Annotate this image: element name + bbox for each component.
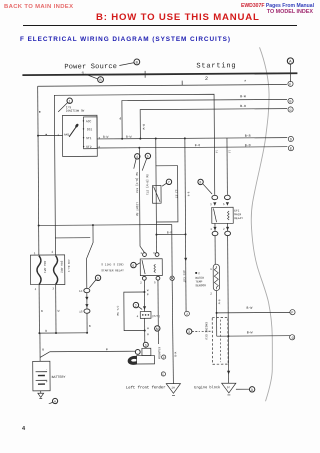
pointer line [58, 103, 68, 112]
connector oval 15 [84, 309, 90, 313]
left main vertical wire lower [38, 285, 40, 333]
left main vertical wire upper [38, 86, 39, 255]
terminal circle B [162, 355, 166, 359]
callout pointer to node 30 [119, 63, 133, 66]
svg-text:B-W: B-W [126, 136, 132, 139]
relay bottom stubs [215, 223, 228, 231]
battery ground stub [40, 391, 42, 393]
fuse element diagonal [153, 186, 160, 201]
wire down from ST1 to ST fuse box [155, 139, 157, 166]
svg-text:1A: 1A [171, 386, 175, 389]
svg-text:B: B [289, 99, 291, 103]
ignition switch box [62, 115, 97, 156]
svg-text:BATTERY: BATTERY [52, 375, 66, 379]
wire segment [86, 293, 88, 309]
junction dots [38, 224, 40, 226]
svg-text:W-B: W-B [174, 352, 177, 357]
svg-text:3: 3 [52, 288, 54, 291]
svg-text:B: B [147, 333, 149, 336]
relay coil [154, 264, 156, 272]
svg-text:ST1: ST1 [86, 136, 92, 140]
svg-text:4: 4 [119, 118, 121, 122]
svg-text:b: b [289, 82, 291, 86]
pointer [136, 263, 140, 265]
svg-text:1: 1 [34, 252, 36, 255]
callout circle F in box [166, 179, 171, 184]
section subtitle [20, 36, 231, 43]
callout circle for ignition switch [67, 98, 72, 103]
splice circle with X [170, 276, 174, 280]
svg-text:1: 1 [140, 252, 142, 255]
svg-text:*: * [244, 79, 246, 84]
svg-text:B-O: B-O [240, 104, 246, 108]
svg-text:SENSOR: SENSOR [195, 284, 206, 287]
svg-text:B: B [147, 293, 149, 296]
svg-text:MAIN: MAIN [234, 213, 241, 216]
connector circle F [290, 310, 295, 315]
tap to EFI relay from ST1 wire [226, 138, 228, 195]
pointer lines to rotated labels [134, 158, 147, 170]
jumper fuse to branch [55, 237, 90, 239]
battery plates [36, 371, 47, 373]
wire ST2 to connector E [97, 147, 287, 148]
EFI relay top connector oval 3 [212, 195, 218, 199]
EFI relay bottom connector oval 2 [225, 231, 231, 235]
svg-text:SW [B-W] ST1: SW [B-W] ST1 [145, 174, 149, 195]
arrowhead on vertical [184, 258, 187, 261]
long vertical wire to engine ECU [185, 138, 186, 311]
EFI relay bottom connector oval 1 [212, 231, 218, 235]
svg-text:30A AM2: 30A AM2 [60, 261, 63, 273]
wire battery to AM1 [38, 134, 62, 136]
svg-text:B-O: B-O [245, 143, 251, 147]
left front fender ground triangle [166, 384, 180, 394]
shielded dashed box [212, 317, 228, 364]
junction dot loop bottom [144, 330, 146, 332]
bottom bus wire [39, 332, 87, 334]
svg-text:15: 15 [79, 311, 83, 314]
fender ground vertical wire lower [172, 281, 173, 384]
water temp sensor body [213, 264, 219, 290]
battery ground arrow [38, 393, 44, 397]
svg-text:B: B [99, 78, 102, 82]
svg-text:2: 2 [140, 282, 142, 285]
svg-text:1J: 1J [228, 150, 231, 154]
svg-text:1: 1 [81, 71, 84, 77]
svg-text:W: W [58, 310, 60, 313]
svg-text:2: 2 [223, 228, 225, 231]
EFI main relay box [212, 207, 234, 223]
svg-text:3: 3 [153, 252, 155, 255]
svg-text:A: A [54, 400, 56, 404]
arrowheads out of relay [213, 227, 216, 230]
contact dots [83, 120, 84, 121]
ground tick [172, 394, 175, 396]
tick above wire 2 [181, 81, 183, 85]
wire B-W to connector B [122, 99, 287, 138]
callout circle L [133, 302, 138, 307]
line to ground code circle [236, 388, 250, 390]
small mark on AM1 wire [46, 134, 47, 135]
svg-text:7: 7 [168, 180, 170, 184]
pointer [89, 280, 96, 288]
svg-text:B-W: B-W [240, 94, 246, 98]
svg-text:5: 5 [147, 154, 149, 158]
svg-text:B: B [163, 355, 165, 359]
clutch start switch box [140, 311, 151, 318]
long horizontal wire to fender ground [39, 224, 172, 227]
svg-text:2: 2 [210, 292, 212, 295]
relay contact diagonal [142, 260, 145, 274]
svg-text:B: B [45, 330, 47, 333]
svg-text:40A AM1: 40A AM1 [43, 261, 46, 273]
wire B-W to connector G [217, 335, 291, 338]
svg-text:1C: 1C [227, 386, 231, 389]
starter relay pin circles bottom [142, 276, 146, 280]
junction dot [155, 234, 157, 236]
pointer to relay connector [203, 184, 212, 194]
connector circle D [288, 136, 293, 141]
callout circle H [198, 179, 203, 184]
relay coil symbol [227, 211, 229, 220]
wire relay pin2 down to B-W wire [227, 236, 230, 336]
wire ST2 down to starter relay coil [139, 148, 144, 253]
engine block ground triangle [222, 383, 236, 393]
svg-text:(M/T): (M/T) [152, 314, 161, 318]
svg-text:S 1(A) S 2(B): S 1(A) S 2(B) [101, 262, 124, 266]
svg-text:A: A [289, 59, 292, 64]
connector circle A [287, 58, 293, 64]
svg-text:E: E [162, 372, 164, 376]
svg-text:ENGINE ECU: ENGINE ECU [204, 322, 207, 340]
fender ground vertical wire upper [171, 225, 173, 277]
svg-text:1: 1 [210, 268, 212, 271]
tick on bus 1 [144, 71, 146, 78]
header right line 1 [241, 3, 314, 9]
callout circle M [155, 326, 160, 331]
connector circle C [288, 107, 293, 112]
scan fold curve [250, 47, 273, 401]
svg-text:STARTER: STARTER [157, 347, 160, 359]
svg-text:WATER: WATER [195, 277, 204, 280]
svg-text:-: - [46, 368, 48, 371]
junction dot [143, 291, 145, 293]
callout circle N [186, 329, 191, 334]
svg-text:B-W: B-W [247, 330, 253, 334]
switch lever [69, 125, 77, 137]
svg-text:Left front fender: Left front fender [126, 385, 166, 390]
connector circle end [185, 311, 190, 316]
svg-text:1J: 1J [215, 150, 218, 154]
svg-text:F: F [291, 311, 293, 315]
wire into clutch switch [143, 292, 145, 311]
svg-text:4: 4 [136, 155, 138, 159]
tick mark on left vertical [39, 111, 40, 112]
connector circle G [290, 335, 295, 340]
starter solenoid box [142, 348, 151, 355]
junction dot right [185, 233, 187, 235]
wire below ST box [155, 222, 157, 252]
circle tail [49, 402, 53, 403]
pointer [162, 183, 167, 186]
svg-text:Engine block: Engine block [194, 385, 220, 390]
battery feed stub [39, 333, 41, 361]
svg-text:1C: 1C [79, 290, 83, 293]
wire relay pin2 down to clutch switch [143, 280, 145, 292]
ignition switch inner contact box [83, 117, 97, 149]
svg-text:B-R: B-R [245, 134, 251, 138]
svg-text:ST2: ST2 [86, 145, 92, 149]
svg-text:B-O: B-O [195, 144, 201, 147]
svg-text:C/L SW: C/L SW [116, 306, 120, 316]
junction dot [227, 335, 229, 337]
svg-text:E: E [290, 147, 292, 151]
svg-text:Starting: Starting [196, 62, 236, 70]
callout circle K [131, 262, 136, 267]
header link left [4, 4, 73, 10]
svg-text:B: B [89, 325, 91, 328]
starter relay pin circles top [143, 253, 147, 257]
junction dots on ST1 wire [121, 138, 123, 140]
svg-text:8: 8 [199, 180, 201, 184]
wire AM2 feed to EFI relay [54, 94, 215, 255]
terminal circle 50 on solenoid [143, 342, 148, 347]
svg-text:3: 3 [98, 137, 100, 140]
svg-text:AM1: AM1 [64, 133, 70, 137]
junction dot on ST2 wire [138, 147, 140, 149]
callout circle I [95, 275, 100, 280]
header right line 2 [267, 9, 313, 15]
fuse AM1 element [37, 256, 41, 285]
A/T bypass loop [124, 292, 145, 331]
connector circle b [288, 81, 293, 86]
terminal circle E [161, 372, 165, 376]
svg-text:B-R: B-R [187, 192, 190, 197]
page number [22, 426, 25, 432]
diagonal to starter feed [40, 352, 50, 358]
svg-text:ACC: ACC [86, 119, 92, 123]
wire relay pin1 down to water temp sensor [214, 236, 216, 264]
ground tick [227, 394, 230, 396]
svg-text:3: 3 [188, 330, 190, 334]
battery ground code circle [52, 398, 57, 403]
svg-text:2: 2 [52, 251, 54, 254]
svg-text:1: 1 [210, 228, 212, 231]
arrowhead [143, 306, 146, 309]
connector circle B [288, 98, 293, 103]
svg-text:6: 6 [132, 264, 134, 268]
ST fuse outer box [156, 166, 178, 222]
wire 2 (starting feed) [38, 85, 287, 87]
svg-text:B-W: B-W [142, 124, 145, 130]
svg-text:+: + [46, 381, 48, 384]
branch wire with connector ovals [86, 225, 93, 288]
sensor label bullet [195, 272, 197, 274]
ground code circle [249, 387, 254, 392]
connector A stem [289, 64, 291, 82]
ST fuse element box [152, 185, 161, 203]
pointer from label 1 to circle B [85, 74, 97, 79]
junction on left vertical [37, 135, 39, 137]
svg-text:IGNITION SW: IGNITION SW [66, 110, 85, 113]
svg-text:J/B No.1: J/B No.1 [67, 259, 71, 272]
bus 1 (power source line) [22, 73, 297, 75]
svg-text:W: W [147, 327, 149, 330]
svg-text:3: 3 [210, 203, 212, 206]
callout circle wire code left [135, 154, 140, 159]
connector oval 1C [84, 288, 90, 292]
switch contacts [142, 314, 144, 316]
sensor resistor zigzag [214, 266, 218, 289]
svg-text:4: 4 [35, 288, 37, 291]
arrowhead 2 [85, 304, 88, 307]
svg-text:B: B [42, 348, 44, 351]
wire B-O to connector C [140, 109, 287, 139]
callout circle after Power Source [134, 59, 140, 65]
svg-text:9: 9 [97, 276, 99, 280]
svg-text:B: B [136, 60, 139, 64]
main title [96, 12, 260, 23]
pointer [138, 307, 142, 310]
wire relay pin5 down to starter [157, 280, 159, 344]
ground tick [39, 398, 42, 400]
svg-text:EFI: EFI [234, 209, 239, 212]
svg-text:B-W: B-W [217, 300, 220, 305]
svg-text:LIGHT SW: LIGHT SW [135, 202, 138, 216]
wire B-W to connector F [217, 311, 291, 314]
svg-text:2: 2 [135, 304, 137, 308]
terminal circle B battery side [135, 350, 140, 355]
svg-text:B-W: B-W [103, 136, 109, 139]
svg-text:W: W [147, 289, 149, 292]
svg-text:STARTER RELAY: STARTER RELAY [101, 269, 124, 272]
svg-text:TEMP: TEMP [195, 281, 202, 284]
svg-text:Power Source: Power Source [64, 63, 117, 71]
arrowheads into relay [213, 202, 216, 205]
svg-text:B-W: B-W [247, 306, 253, 310]
fuse AM2 element [53, 256, 57, 285]
ground wire from dashed box [227, 336, 229, 383]
callout circle B under bus 1 [98, 77, 104, 83]
svg-text:RELAY: RELAY [234, 217, 243, 220]
svg-text:J: J [186, 312, 188, 316]
starter feed wire [50, 350, 136, 353]
arrowhead on ground wire [227, 371, 230, 375]
svg-text:SW [B-O] ST2: SW [B-O] ST2 [135, 172, 139, 193]
svg-text:2: 2 [205, 76, 208, 82]
junction dots [38, 332, 40, 334]
wire below oval 15 [86, 313, 88, 332]
svg-text:ACC CUT: ACC CUT [182, 270, 185, 282]
lever knob [75, 123, 79, 128]
wire AM2 below fuse box [55, 285, 57, 333]
svg-text:2: 2 [198, 272, 200, 275]
callout circle wire code right [145, 153, 150, 158]
fuse box [30, 255, 64, 285]
wire below clutch switch [144, 318, 146, 342]
svg-text:5: 5 [223, 203, 225, 206]
connector circle E [288, 146, 293, 151]
pointer dash to dashed box [192, 330, 212, 332]
wire sensor pin2 down [215, 291, 217, 337]
jumper wire B-R [156, 233, 185, 235]
starter relay box [140, 259, 162, 276]
starter motor box [136, 356, 154, 364]
svg-text:4: 4 [137, 315, 139, 318]
arrowhead [85, 297, 88, 300]
svg-text:1: 1 [69, 99, 71, 103]
svg-text:S: S [145, 343, 147, 347]
relay contact diagonal [213, 208, 216, 222]
internal dashed wire in shielded box [219, 320, 221, 362]
svg-text:B: B [106, 348, 108, 351]
starter pinion housing [128, 356, 136, 364]
svg-text:IG1: IG1 [87, 127, 93, 131]
svg-text:5: 5 [154, 281, 156, 284]
svg-text:W: W [41, 310, 43, 313]
svg-text:1J ST: 1J ST [174, 189, 177, 198]
EFI relay top connector oval 5 [224, 195, 230, 199]
svg-text:M: M [156, 327, 159, 331]
title rule [23, 25, 297, 27]
battery box [33, 361, 50, 391]
wire ST1 to connector D [97, 138, 287, 139]
